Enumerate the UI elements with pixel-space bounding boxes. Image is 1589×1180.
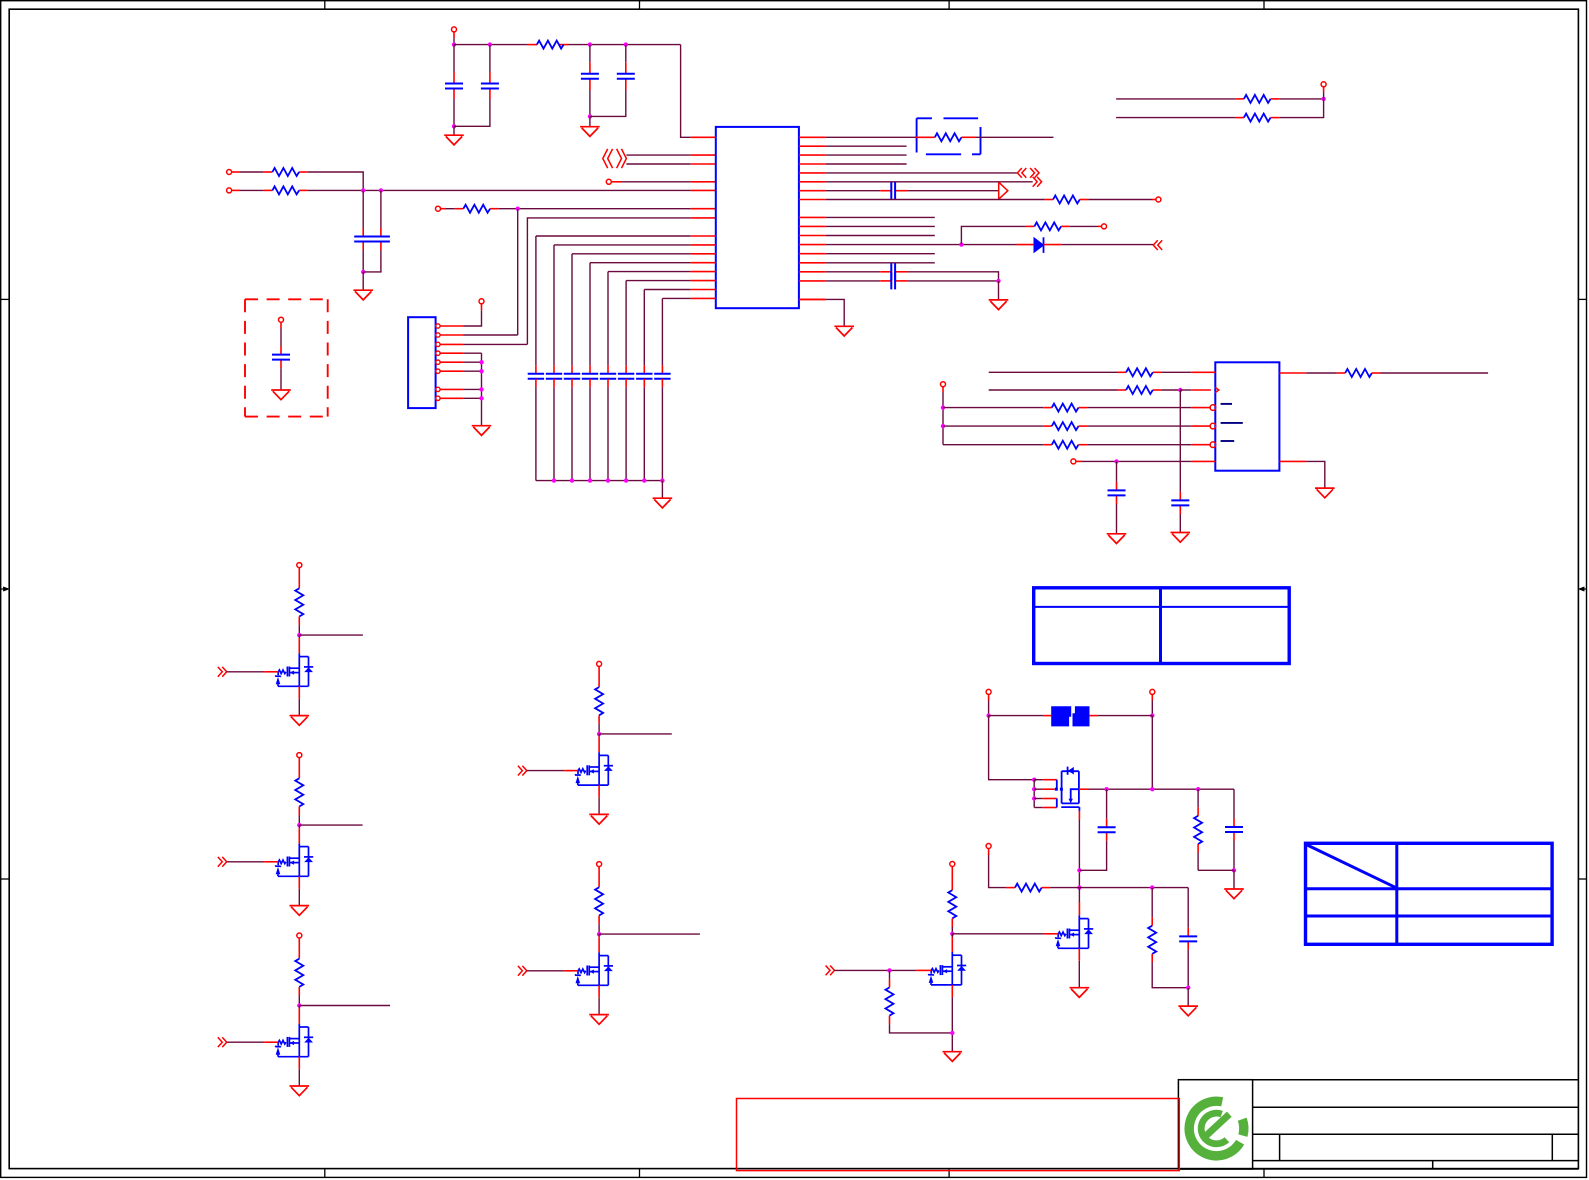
wire Q3 resistor to junction <box>298 987 300 996</box>
IC U2 body <box>1215 362 1279 470</box>
junction node C1 <box>959 242 963 246</box>
junction J1-b <box>479 369 483 373</box>
junction node E2 <box>941 405 945 409</box>
right zone tick 1 <box>1578 298 1586 300</box>
ground GND9 <box>1107 534 1127 544</box>
wire y262.8 nc <box>826 262 935 264</box>
capacitor C8b <box>891 272 895 289</box>
junction bus rail <box>570 478 574 482</box>
capacitor C12 wire+stubs <box>1233 789 1235 818</box>
sheet chevron input Q8 <box>826 966 835 976</box>
capacitor C7 <box>891 182 895 199</box>
port P13 <box>986 844 991 849</box>
wire R7 to port P8 <box>1061 225 1070 227</box>
wire fuse to F2 <box>1089 715 1098 717</box>
transistor Q1 (NMOS with gate resistor and zener) <box>275 653 313 686</box>
wire y461.4 <box>1076 460 1082 462</box>
capacitor C10 wire+stubs <box>1116 461 1118 482</box>
resistor R15pd <box>886 987 894 1015</box>
capacitor C14 wire+stubs <box>280 322 282 329</box>
capacitor CB2 <box>546 374 562 379</box>
resistor R2 <box>272 168 299 176</box>
wire y280.9 to junction <box>908 280 998 282</box>
ground GND5 <box>472 426 492 436</box>
resistor R6 <box>1053 196 1080 204</box>
resistor R14pu <box>948 890 956 918</box>
bottom zone tick 3 <box>948 1169 950 1178</box>
sheet-entry chevrons net pair (left) <box>603 149 613 168</box>
U1 pin1 stub y137.3 <box>691 136 716 138</box>
junction bus rail <box>660 478 664 482</box>
connector J1 pin 2 <box>436 333 440 337</box>
ground Q3-GND <box>290 1086 310 1096</box>
connector J1 pin 3 <box>436 342 440 346</box>
capacitor C11 wire+stubs <box>1106 789 1108 819</box>
Q6 pin stubs <box>1034 779 1042 781</box>
junction node F9 <box>1232 868 1236 872</box>
wire R9a to junction <box>1161 389 1180 391</box>
wire D1 to chevron <box>1044 244 1062 246</box>
wire y164 to U1 <box>626 163 690 165</box>
title block divider a <box>1279 1134 1281 1160</box>
wire y244.6 diode stubs <box>826 244 1017 246</box>
wire y44.6 R1 to corner <box>569 44 681 46</box>
red annotation box <box>737 1099 1180 1171</box>
capacitor CB3 <box>564 374 580 379</box>
capacitor C9 <box>1171 500 1189 505</box>
wire R8 to U2 <box>1161 371 1191 373</box>
ground GND13 <box>1070 988 1090 998</box>
junction node F7 <box>1150 787 1154 791</box>
bus column 2 vertical <box>553 245 555 365</box>
resistor R13 wire+stubs <box>1151 888 1153 918</box>
junction node F14 <box>950 1031 954 1035</box>
Q6 source bracket <box>1056 780 1058 790</box>
wire Q4 port to resistor <box>598 666 600 687</box>
wire R15 to junction <box>1279 98 1323 100</box>
resistor R15 <box>1244 95 1271 103</box>
wire y217.4 nc <box>826 216 935 218</box>
U1 right pin stub y199.5 <box>799 199 826 201</box>
junction node F5 <box>1077 885 1081 889</box>
bus column 3 vertical <box>571 254 573 365</box>
title block tick <box>1432 1161 1434 1169</box>
wire Q4 drain branch <box>599 733 672 735</box>
wire Q8 gate input <box>835 969 917 971</box>
table T2 vertical divider <box>1395 843 1398 944</box>
wire y181.8 to chevron <box>826 181 1033 183</box>
capacitor CB4 <box>582 374 598 379</box>
U1 right pin stub y137.3 <box>799 136 826 138</box>
U2 right pin y373 stub <box>1279 372 1306 374</box>
junction node F12 <box>950 932 954 936</box>
wire y98.9 <box>1116 98 1235 100</box>
resistor R16 <box>1244 114 1271 122</box>
wire Q2 resistor to junction <box>298 807 300 816</box>
junction node A6 <box>588 114 592 118</box>
bus ground rail <box>536 480 663 482</box>
wire Q1 drain branch <box>299 634 363 636</box>
wire C1 up to resistor R7 <box>961 226 1026 244</box>
junction node F8 <box>1196 787 1200 791</box>
resistor R9d <box>1052 441 1079 449</box>
U2 clock pin marker <box>1215 387 1219 392</box>
wire P10 column <box>942 387 944 393</box>
ground GND7 <box>834 326 854 336</box>
junction bus rail <box>588 478 592 482</box>
bus column 8 vertical <box>661 298 663 365</box>
wire F5 right <box>1079 887 1188 889</box>
port VCC-IN P1 <box>452 27 457 32</box>
resistor R8 <box>1126 368 1153 376</box>
ground GND11 <box>1224 889 1244 899</box>
ground GND6 <box>989 300 1009 310</box>
junction node F6 <box>1104 787 1108 791</box>
resistor R9c <box>1052 422 1079 430</box>
capacitor C4 wire+stubs <box>625 45 627 63</box>
wire R9c to U2 <box>1079 425 1088 427</box>
table T2 outline <box>1306 843 1553 944</box>
junction node B4 <box>516 207 520 211</box>
wire Q2 source to ground <box>298 876 300 889</box>
wire R14pu to junction <box>951 918 953 927</box>
junction node B2 <box>379 188 383 192</box>
wire y199.5 <box>826 199 1045 201</box>
wire y208.7 stub <box>440 208 446 210</box>
off-page arrow y190.7 <box>999 182 1008 199</box>
wire J1 ground column <box>481 353 483 426</box>
top zone tick 4 <box>1263 1 1265 10</box>
wire F12 to Q7 gate <box>952 933 1044 935</box>
transistor Q8 (NMOS with gate resistor and zener) <box>928 952 966 985</box>
junction node E3 <box>941 424 945 428</box>
junction node E1 <box>1178 388 1182 392</box>
wire Q5 source to ground <box>598 985 600 998</box>
wire Q1 port to resistor <box>298 567 300 588</box>
wire J1 pin6 <box>463 370 481 372</box>
wire B4 down to J1 pin2 <box>517 209 519 335</box>
wire D2 corner to y117.6 <box>1279 99 1323 118</box>
transistor Q6 (PMOS) pin column <box>1033 780 1035 808</box>
wire y172 to corner <box>308 172 364 190</box>
capacitor C2 wire+stubs <box>489 45 491 72</box>
connector J1 pin 5 <box>436 360 440 364</box>
wire Q5 junction to drain <box>598 934 600 937</box>
U1 right pin stub y217.4 <box>799 216 826 218</box>
wire Q2 port to resistor <box>298 757 300 778</box>
resistor R10 <box>1345 369 1372 377</box>
ground Q5-GND <box>589 1015 609 1025</box>
wire R10 right <box>1372 372 1381 374</box>
junction node F13 <box>887 968 891 972</box>
resistor Q5-Rpu <box>595 887 603 915</box>
wire y271.8 to corner <box>908 272 998 281</box>
capacitor C1 wire+stubs <box>453 45 455 72</box>
connector J1 pin 8 <box>436 396 440 400</box>
resistor R9a stubs <box>1118 389 1127 391</box>
wire y155.1 to U1 <box>626 154 690 156</box>
junction Q1-drain <box>297 633 301 637</box>
wire U1 left pin 9 to bus column 2 <box>554 244 691 246</box>
capacitor C2 <box>481 84 499 89</box>
title block top edge <box>1253 1079 1579 1081</box>
sheet chevron input Q4 <box>518 766 527 776</box>
U1 right pin stub y181.8 <box>799 181 826 183</box>
junction Q2-drain <box>297 823 301 827</box>
resistor R4 stubs <box>455 208 464 210</box>
junction node F3 <box>1032 778 1036 782</box>
wire J1 pin3 corner <box>463 343 527 345</box>
wire R13 down <box>1151 954 1153 963</box>
table T1 outline <box>1034 588 1290 664</box>
capacitor CB7 <box>636 374 652 379</box>
left zone tick 2 <box>1 878 10 880</box>
sheet chevron left y172.9 <box>1017 168 1026 178</box>
connector J1 pin 7 <box>436 387 440 391</box>
wire y172 stub <box>231 171 240 173</box>
wire Q3 junction to drain <box>298 1006 300 1009</box>
wire Q1 junction to drain <box>298 635 300 638</box>
left zone tick 1 <box>1 298 10 300</box>
U1 right pin stub y253.7 <box>799 253 826 255</box>
junction J1-a <box>479 360 483 364</box>
bottom zone tick 4 <box>1263 1169 1265 1178</box>
port Q2-P <box>297 753 302 758</box>
wire R9b to U2 <box>1079 407 1088 409</box>
ground GND8 <box>1171 533 1191 543</box>
wire y390 <box>989 389 1118 391</box>
title block bottom edge <box>1178 1168 1578 1170</box>
resistor R12 <box>1015 884 1042 892</box>
capacitor CB6 <box>618 374 634 379</box>
wire F1 to fuse <box>989 715 1044 717</box>
wire y444.7 <box>943 444 1043 446</box>
resistor R15pd wire <box>889 970 891 979</box>
wire P12 down <box>1151 694 1153 700</box>
transistor Q7 drain wire <box>1078 888 1080 902</box>
wire y190.7 to arrow <box>908 190 999 192</box>
wire Q2 junction to drain <box>298 825 300 828</box>
resistor R9a <box>1126 386 1153 394</box>
title block row line 3 <box>1253 1160 1579 1162</box>
U1 right pin stub y299.4 <box>799 298 826 300</box>
ground GND1 <box>444 135 464 145</box>
U1 right pin stub y190.7 <box>799 190 826 192</box>
port P4 <box>606 179 611 184</box>
ground Q4-GND <box>589 814 609 824</box>
wire y190.4 to U1 <box>308 189 691 191</box>
table T2 row line 1 <box>1306 887 1553 890</box>
U2 right pin y461.4 stub <box>1279 460 1306 462</box>
fuse F100 (filled) <box>1052 707 1071 726</box>
junction Q6 pin2 <box>1032 787 1036 791</box>
U1 right pin stub y146.2 <box>799 145 826 147</box>
wire U1 left pin 8 to bus column 1 <box>536 235 691 237</box>
transistor Q3 (NMOS with gate resistor and zener) <box>275 1024 313 1057</box>
junction bus rail <box>642 478 646 482</box>
resistor R16 stubs <box>1235 117 1244 119</box>
wire U1 left pin 14 to bus column 7 <box>644 289 690 291</box>
wire F9 to ground <box>1233 870 1235 889</box>
port Q4-P <box>597 661 602 666</box>
wire Q5 drain branch <box>599 933 700 935</box>
U1 right pin stub y244.6 <box>799 244 826 246</box>
resistor R11 wire+stubs <box>1197 789 1199 807</box>
capacitor CB8 <box>654 374 670 379</box>
resistor R1 <box>537 41 564 49</box>
wire R15pd down <box>889 1016 891 1025</box>
wire y181.8 to U1 <box>611 181 621 183</box>
wire A6 to ground <box>589 116 591 126</box>
U1 right pin stub y280.9 <box>799 280 826 282</box>
resistor R3 <box>272 186 299 194</box>
resistor Q3-Rpu <box>295 959 303 987</box>
port P8 <box>1102 224 1107 229</box>
wire R11 down <box>1197 844 1199 853</box>
wire J1 pin5 <box>463 361 481 363</box>
U1 right pin stub y155.1 <box>799 154 826 156</box>
junction node B1 <box>361 188 365 192</box>
wire R6 to port P7 <box>1080 199 1089 201</box>
sheet chevron left y244.6 <box>1153 240 1162 250</box>
wire Q1 gate input <box>227 671 264 673</box>
junction node E4 <box>1114 459 1118 463</box>
port P6 <box>479 299 484 304</box>
capacitor C4 <box>617 74 635 79</box>
wire rail to ground <box>661 481 663 499</box>
wire Q5 resistor to junction <box>598 916 600 925</box>
IC U1 body <box>716 127 799 308</box>
U2 pin-name overbar 1 <box>1221 403 1232 405</box>
Q6 gate squares <box>1055 788 1058 791</box>
wire to GND10 <box>1306 461 1325 488</box>
ground GND15 <box>271 390 291 400</box>
ground Q1-GND <box>290 716 310 726</box>
junction node F4 <box>1077 868 1081 872</box>
junction node A1 <box>452 42 456 46</box>
wire U1 left pin 13 to bus column 6 <box>626 280 691 282</box>
junction node F10 <box>1150 885 1154 889</box>
resistor R12 stubs <box>1006 887 1015 889</box>
wire y373 right <box>1306 372 1336 374</box>
wire y155.1 nc <box>826 154 907 156</box>
bus column 1 vertical <box>535 236 537 365</box>
resistor R4 <box>463 205 490 213</box>
wire A5 to ground <box>453 126 455 135</box>
capacitor C5 <box>354 237 372 242</box>
U2 pin-name overbar 3 <box>1221 440 1235 442</box>
wire Q4 source to ground <box>598 785 600 798</box>
wire Q6 drain y789.2 <box>1079 788 1089 790</box>
transistor Q7 (NMOS with gate resistor and zener) <box>1055 915 1093 948</box>
wire y44.6 A1-A2 <box>454 44 527 46</box>
junction bus rail <box>552 478 556 482</box>
red dashed option box <box>245 299 328 416</box>
junction node A2 <box>488 42 492 46</box>
wire Q7 source to ground <box>1078 948 1080 961</box>
wire Q8 source to ground <box>951 985 953 998</box>
junction Q3-drain <box>297 1003 301 1007</box>
junction node D2 <box>1321 97 1325 101</box>
wire y226.4 nc <box>826 225 935 227</box>
port P16 (battery) <box>279 317 284 322</box>
wire J1 pin2 to node B4 <box>463 334 518 336</box>
junction J1-d <box>479 396 483 400</box>
capacitor C10 <box>1108 490 1126 495</box>
sheet chevron input Q5 <box>518 966 527 976</box>
junction node A3 <box>588 42 592 46</box>
junction node A5 <box>452 124 456 128</box>
junction Q5-drain <box>597 932 601 936</box>
port P14 <box>950 862 955 867</box>
resistor R3 stubs <box>264 189 273 191</box>
port P2 <box>227 170 232 175</box>
wire P14 to resistor <box>951 866 953 890</box>
wire y372.3 <box>989 371 1118 373</box>
wire J1 pin7 <box>463 388 481 390</box>
bottom zone tick 2 <box>639 1169 641 1178</box>
capacitor C11 <box>1098 827 1116 832</box>
resistor R8 stubs <box>1118 371 1127 373</box>
top zone tick 2 <box>639 1 641 10</box>
resistor Q2-Rpu <box>295 778 303 806</box>
U1 right pin stub y226.4 <box>799 225 826 227</box>
U1 bottom ground pin path red <box>799 298 826 300</box>
capacitor C13 <box>1179 936 1197 941</box>
wire F2 down <box>1151 716 1153 790</box>
wire Q3 source to ground <box>298 1057 300 1070</box>
left edge centre arrow <box>1 588 6 590</box>
transistor Q4 (NMOS with gate resistor and zener) <box>575 752 613 785</box>
U2 pin-name overbar 2 <box>1221 422 1243 424</box>
wire F12 to Q8 drain <box>951 934 953 937</box>
ground GND12 <box>1178 1006 1198 1016</box>
bottom zone tick 1 <box>324 1169 326 1178</box>
wire Q3 drain branch <box>299 1005 390 1007</box>
U1 right pin stub y235.5 <box>799 235 826 237</box>
U1 right pin stub y271.8 <box>799 271 826 273</box>
wire Q6 gate down <box>1078 807 1080 811</box>
wire y137.3 after box <box>976 136 1054 138</box>
junction node F1 <box>986 713 990 717</box>
ground GND14 <box>943 1052 963 1062</box>
junction J1-c <box>479 387 483 391</box>
wire B3 to ground <box>362 272 364 290</box>
capacitor C6 <box>372 237 390 242</box>
bus column 7 vertical <box>643 290 645 366</box>
capacitor CB1 <box>528 374 544 379</box>
U1 right pin stub y262.8 <box>799 262 826 264</box>
resistor R9b <box>1052 404 1079 412</box>
transistor Q6 (PMOS) body <box>1061 767 1079 808</box>
wire F9 left <box>1198 869 1234 871</box>
title block row line 2 <box>1253 1133 1579 1135</box>
sheet chevron right y172.9 <box>1030 168 1039 178</box>
wire corner down to U1 pin1 <box>681 45 691 138</box>
U1 pin stub y190.4 <box>691 189 716 191</box>
wire Q5 port to resistor <box>598 866 600 887</box>
wire D2 to port P15 <box>1323 92 1325 99</box>
ground GND4 <box>653 498 673 508</box>
U2 negated pin bubble 4 <box>1210 442 1216 448</box>
wire y117.6 <box>1116 117 1235 119</box>
dashed option box <box>917 118 981 154</box>
ground GND3 <box>353 290 373 300</box>
capacitor C9 wire+stubs <box>1179 390 1181 492</box>
capacitor C1 <box>445 84 463 89</box>
wire gate red stub <box>916 969 931 971</box>
resistor Q1-Rpu <box>295 588 303 616</box>
